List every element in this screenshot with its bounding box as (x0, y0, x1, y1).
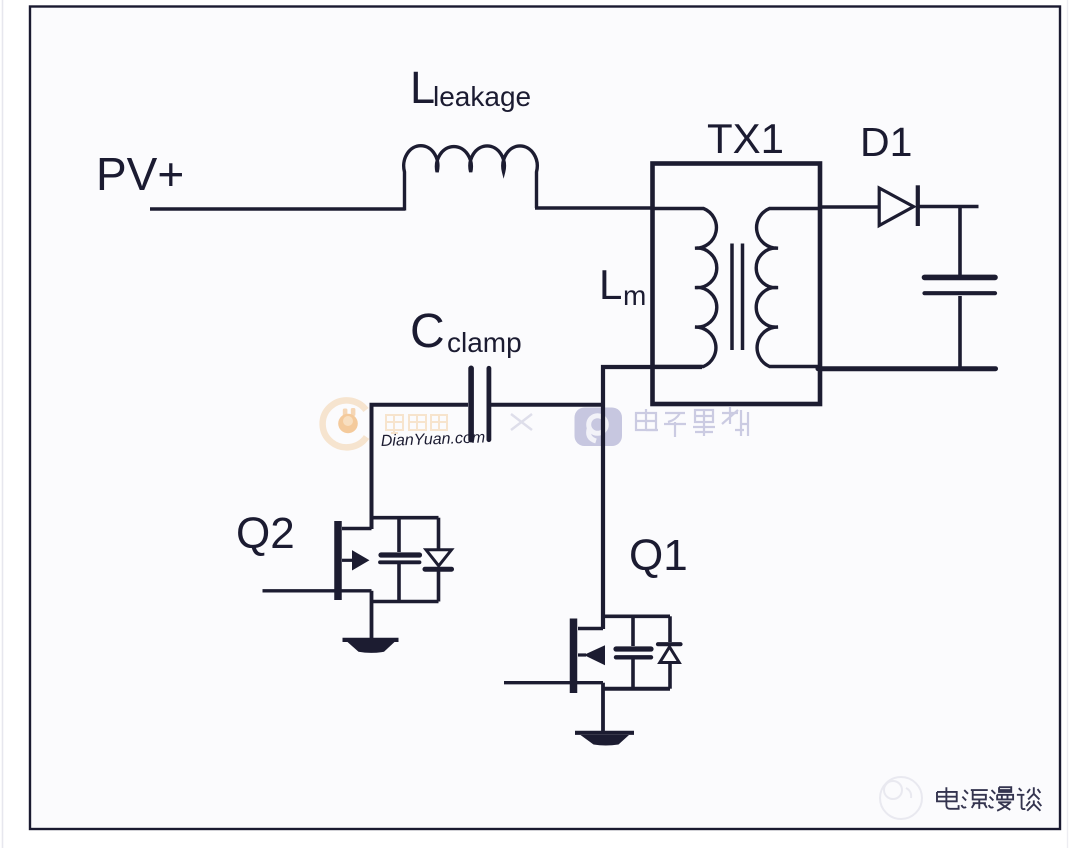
snubber Q2 loop (372, 518, 452, 602)
wire TX1 secondary to D1 (819, 205, 880, 209)
wire inductor to TX1 (535, 206, 653, 209)
wire Q2 snubber bottom (372, 600, 439, 604)
wire Q2 snubber top (372, 516, 439, 520)
svg-text:D1: D1 (860, 119, 912, 165)
watermark x mark (511, 414, 532, 430)
transistor Q2 gate bar (334, 521, 342, 600)
watermark dianyuan text (386, 415, 447, 433)
wire D1 cathode (918, 205, 979, 209)
diode Q2 body (426, 550, 452, 566)
svg-text:clamp: clamp (447, 327, 522, 358)
wire Q1 snubber top (603, 614, 670, 618)
transistor Q2 source lead (370, 591, 374, 638)
transistor Q1 gate lead (504, 681, 603, 684)
wire TX1 primary bottom to node A (603, 367, 702, 629)
transistor Q2 arrow stub (342, 559, 354, 562)
svg-text:Q2: Q2 (236, 509, 295, 558)
diode Q2 body top lead (437, 518, 441, 550)
capacitor Q1 body bottom lead (631, 660, 635, 689)
watermark orange logo (323, 400, 367, 447)
svg-text:Q1: Q1 (629, 531, 688, 580)
inductor Lleakage (404, 146, 538, 211)
transistor Q1 source lead (601, 683, 605, 731)
diode Q2 body bottom lead (437, 572, 441, 602)
transformer TX1 box (653, 164, 821, 405)
diode Q1 body (658, 642, 681, 646)
transistor Q1 gate bar (570, 619, 578, 694)
svg-text:L: L (410, 62, 435, 113)
glyph yuan (961, 790, 987, 809)
svg-text:L: L (599, 261, 622, 308)
diode D1 (879, 188, 913, 226)
wire output cap bottom lead (958, 296, 962, 367)
glyph dian (937, 787, 959, 809)
glyph tan (1017, 787, 1041, 811)
wire Cclamp right to node A (491, 403, 603, 407)
capacitor Q2 body (381, 552, 420, 557)
snubber Q1 loop (603, 616, 681, 688)
watermark blue logo (575, 408, 623, 447)
svg-text:leakage: leakage (433, 81, 531, 112)
transistor Q2 gate lead (263, 589, 372, 592)
wire Cclamp left to Q2 drain (372, 405, 469, 529)
transistor Q2 (263, 521, 372, 638)
svg-text:C: C (410, 305, 445, 358)
transistor Q1 arrow (585, 646, 605, 665)
capacitor Q1 body (616, 646, 651, 651)
watermark dianyuanmantan text (937, 787, 1041, 811)
capacitor Q2 body top lead (397, 518, 401, 552)
transformer TX1 core (732, 244, 743, 351)
ground Q1 (575, 731, 634, 735)
transistor Q1 arrow stub (578, 653, 586, 656)
wire secondary bottom (818, 366, 996, 371)
transformer TX1 primary winding (654, 209, 717, 367)
svg-text:TX1: TX1 (707, 115, 784, 162)
svg-text:PV+: PV+ (96, 148, 184, 200)
transistor Q2 drain stub (342, 527, 372, 530)
watermark dianzixingqiu text (636, 407, 748, 437)
watermark bottom logo (880, 777, 922, 819)
capacitor Q1 body top lead (631, 616, 635, 646)
ground Q2 (343, 638, 399, 642)
diode Q1 body top lead (668, 616, 672, 642)
capacitor Cclamp (468, 368, 474, 439)
transistor Q1 drain stub (578, 627, 603, 630)
capacitor Q2 body bottom lead (397, 564, 401, 602)
glyph man (989, 787, 1013, 811)
transformer TX1 secondary winding (756, 209, 819, 367)
wire output cap top lead (958, 207, 962, 276)
diode Q1 body bottom lead (668, 663, 672, 689)
edge artifact line left (2, 0, 4, 848)
wire Q1 snubber bottom (603, 687, 670, 691)
transistor Q2 arrow (353, 551, 369, 570)
svg-text:m: m (623, 280, 646, 311)
edge artifact line right (1067, 0, 1069, 848)
transistor Q1 (504, 619, 605, 732)
capacitor output (925, 275, 996, 281)
wire PV+ to inductor (150, 207, 405, 210)
